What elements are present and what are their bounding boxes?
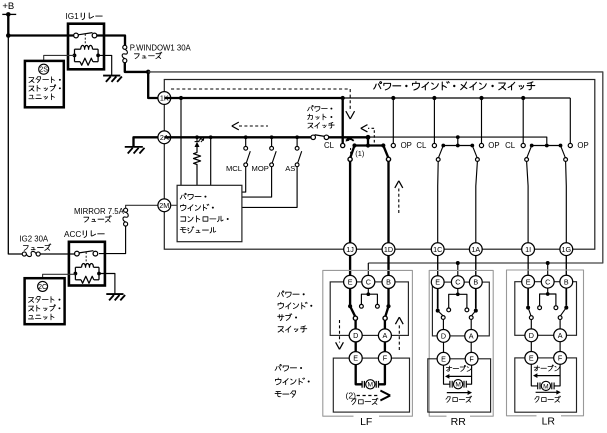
- switch RR sub blade B: [472, 311, 476, 316]
- svg-text:E: E: [526, 277, 531, 286]
- connector 2C: [38, 281, 48, 291]
- wire module feed from 2A bus: [209, 135, 213, 185]
- label RR open: [446, 365, 471, 371]
- unit 2C start-stop box: [25, 278, 65, 324]
- wire pole to 1I: [527, 161, 529, 275]
- wire LF rocker bar (thick): [355, 137, 384, 145]
- junction LR E pivot: [526, 306, 530, 310]
- wire 1A to RR B: [475, 256, 477, 276]
- svg-text:B: B: [564, 277, 569, 286]
- wire OP1 feed: [392, 98, 394, 143]
- svg-text:(1): (1): [355, 149, 364, 158]
- svg-text:RR: RR: [451, 416, 467, 428]
- svg-text:1C: 1C: [433, 245, 442, 254]
- contact LR sub pole B: [558, 316, 562, 320]
- block RR motor box: [428, 359, 491, 412]
- wire IG1 coil to ground: [98, 55, 112, 75]
- wire +B to IG1 relay (thick): [8, 34, 74, 36]
- wire IG1 coil to 2S unit: [44, 55, 75, 61]
- contact OP1: [391, 143, 395, 147]
- wire LF common bracket: [361, 288, 377, 304]
- switch MCL: [242, 135, 250, 192]
- svg-text:1G: 1G: [562, 245, 572, 254]
- svg-text:AS: AS: [285, 164, 295, 173]
- switch LF sub blade B (thick): [385, 306, 388, 316]
- fuse IG2 30A: [22, 251, 40, 256]
- svg-text:C: C: [366, 277, 371, 286]
- junction RR E pivot: [436, 309, 440, 313]
- wire LR rocker bar: [532, 145, 561, 147]
- switch LR close blade: [527, 146, 532, 158]
- switch LF sub blade E (thick): [350, 306, 355, 316]
- block LR door box: [507, 270, 584, 416]
- svg-text:IG1: IG1: [66, 12, 80, 21]
- junction OP1 feed: [391, 96, 395, 100]
- ground ACC relay: [106, 294, 125, 300]
- relay IG1 label: [66, 12, 103, 21]
- connector LR C: [541, 275, 554, 288]
- block LF door box: [323, 270, 413, 416]
- switch LF close blade (thick): [350, 146, 354, 158]
- wire ACC coil to 2C unit: [43, 274, 76, 278]
- label LF (2): [346, 391, 357, 401]
- junction LED branch: [179, 96, 183, 100]
- junction CL3 feed: [521, 96, 525, 100]
- wire RR motor loop: [444, 365, 472, 384]
- wire +B vertical feed (thick): [7, 14, 9, 35]
- unit 2S start-stop box: [25, 61, 64, 107]
- connector LF B: [382, 275, 395, 288]
- label RR close: [446, 396, 472, 402]
- wire 2A bus (thick): [164, 136, 311, 138]
- svg-text:1A: 1A: [471, 245, 480, 254]
- connector 1D: [382, 243, 395, 256]
- connector LR motor E: [525, 352, 538, 365]
- svg-text:CL: CL: [416, 141, 427, 150]
- label RR: [451, 416, 467, 428]
- relay IG1 contacts and coil: [73, 33, 100, 66]
- svg-text:E: E: [435, 278, 440, 287]
- connector RR C: [451, 276, 464, 289]
- label LR close: [535, 396, 561, 402]
- svg-text:F: F: [469, 354, 474, 363]
- switch RR close blade: [439, 146, 444, 158]
- wire RR pole to D: [442, 319, 444, 329]
- svg-text:OP: OP: [488, 141, 499, 150]
- annotation LR open arrow: [533, 373, 560, 378]
- svg-text:A: A: [469, 331, 474, 340]
- junction RR bar dots: [441, 144, 474, 148]
- contact LF open pole: [386, 157, 390, 161]
- wire 1I to LR E: [527, 256, 529, 276]
- wire LF pole to D (thick): [354, 320, 356, 329]
- contact CL3: [521, 143, 525, 147]
- label AS: [285, 164, 295, 173]
- annotation dashed flow arrow left (module): [232, 122, 268, 130]
- block power window control module box: [177, 185, 242, 241]
- svg-text:2C: 2C: [38, 284, 47, 291]
- label MCL: [226, 164, 242, 173]
- wire LF E to pivot (thick): [349, 288, 351, 306]
- connector LR E: [522, 275, 535, 288]
- junction OP2 feed: [479, 96, 483, 100]
- svg-text:1D: 1D: [384, 245, 393, 254]
- svg-text:F: F: [383, 354, 388, 363]
- label IG2 30A: [20, 235, 51, 251]
- wire RR E to pivot: [437, 289, 439, 309]
- svg-text:2S: 2S: [39, 67, 48, 74]
- label OP2: [488, 141, 499, 150]
- wire 1K bus thin section: [343, 97, 571, 99]
- led indicator: [195, 135, 205, 147]
- svg-text:P.WINDOW1 30A: P.WINDOW1 30A: [130, 44, 192, 53]
- wire LR B to pivot: [565, 288, 567, 306]
- connector RR B: [469, 276, 482, 289]
- label MOP: [252, 164, 269, 173]
- connector RR motor F: [465, 352, 478, 365]
- wire riser RR common: [457, 263, 459, 276]
- switch LR open blade: [561, 146, 566, 158]
- wire module feed from 1K bus: [180, 98, 182, 185]
- label 2S start-stop text: [29, 77, 61, 100]
- wire LF B to pivot (thick): [387, 288, 389, 306]
- svg-text:E: E: [348, 277, 353, 286]
- label OP1: [401, 141, 412, 150]
- contact RR close pole: [436, 158, 440, 162]
- wire RR B to pivot: [475, 289, 477, 309]
- junction LR common feed: [546, 261, 550, 265]
- contact LR bracket left: [538, 306, 542, 310]
- motor LR: [538, 381, 554, 390]
- wire RR A to motor F: [470, 342, 472, 352]
- block RR door box: [429, 270, 493, 416]
- junction RR B pivot: [474, 309, 478, 313]
- contact LR open pole: [564, 158, 568, 162]
- wire LF motor loop (thick): [356, 365, 385, 385]
- wire pole to 1C: [437, 161, 440, 275]
- wire mirror fuse to ACC relay: [99, 226, 126, 254]
- svg-text:C: C: [545, 277, 550, 286]
- connector 1J: [344, 243, 357, 256]
- label OP3: [577, 141, 588, 150]
- connector 1K: [158, 92, 171, 105]
- fuse P.WINDOW1 30A: [122, 45, 127, 62]
- connector LF motor F: [378, 352, 391, 365]
- block LF sub switch box: [330, 282, 408, 336]
- svg-text:OP: OP: [401, 141, 412, 150]
- label LF: [360, 416, 372, 428]
- motor RR: [450, 380, 466, 389]
- wire LR common bracket: [540, 288, 556, 306]
- connector 2A: [158, 131, 171, 144]
- block LR motor box: [515, 358, 577, 412]
- contact LF bracket left: [360, 304, 364, 308]
- svg-text:B: B: [473, 278, 478, 287]
- svg-text:MOP: MOP: [252, 164, 269, 173]
- contact LF close pole: [348, 157, 352, 161]
- connector LR B: [560, 275, 573, 288]
- annotation RR open arrow: [445, 374, 472, 379]
- label power cut switch: [308, 105, 335, 128]
- svg-text:D: D: [441, 331, 446, 340]
- wire LF pole to A (thick): [384, 320, 386, 329]
- fuse MIRROR 7.5A: [123, 208, 128, 226]
- svg-text:OP: OP: [577, 141, 588, 150]
- connector LF C: [362, 275, 375, 288]
- contact LF bracket right: [376, 304, 380, 308]
- wire ACC coil to ground: [99, 274, 115, 294]
- resistor indicator series: [194, 147, 201, 185]
- label LF close: [351, 398, 378, 405]
- wire LR E to pivot: [527, 288, 529, 306]
- wire 2A bus after power cut switch (thick): [329, 136, 368, 138]
- wire OP2 feed: [481, 98, 483, 143]
- contact LF sub pole B: [383, 316, 387, 320]
- switch LR sub blade B: [560, 308, 566, 316]
- contact LR bracket right: [554, 306, 558, 310]
- ground 2A: [125, 147, 145, 154]
- annotation LF up arrow: [395, 317, 403, 350]
- label CL1: [324, 141, 335, 150]
- junction CL2 feed: [432, 96, 436, 100]
- connector LF A: [378, 329, 391, 342]
- connector RR E: [431, 276, 444, 289]
- contact RR sub pole E: [441, 316, 445, 320]
- wire 2M to mirror fuse: [126, 205, 159, 208]
- connector 1A: [469, 243, 482, 256]
- wire IG1 contact to fuse (thick): [97, 36, 125, 46]
- wire 1G to LR B: [565, 256, 567, 276]
- wire CL1 feed (thick): [342, 98, 344, 143]
- svg-text:CL: CL: [505, 141, 516, 150]
- wire CL3 feed: [522, 98, 524, 143]
- svg-text:M: M: [455, 382, 461, 389]
- label control module text: [180, 193, 229, 233]
- svg-text:E: E: [441, 354, 446, 363]
- contact RR bracket left: [447, 308, 451, 312]
- connector 1C: [431, 243, 444, 256]
- wire RR common bracket: [449, 289, 467, 309]
- label MIRROR 7.5A: [74, 207, 125, 222]
- svg-text:M: M: [543, 383, 549, 390]
- wire +B down to IG2 fuse: [8, 36, 22, 255]
- wire pole to 1J (thick): [349, 161, 351, 275]
- wire riser LR common: [547, 263, 549, 275]
- relay ACC box: [69, 242, 105, 286]
- wire RR D to motor E: [443, 342, 445, 352]
- svg-text:E: E: [353, 354, 358, 363]
- annotation dashed flow near OP1: [361, 125, 375, 143]
- wire LR A to motor F: [559, 342, 561, 352]
- svg-text:E: E: [529, 353, 534, 362]
- switch LF open blade (thick): [383, 146, 388, 158]
- connector 1G: [560, 243, 573, 256]
- connector LF motor E: [349, 352, 362, 365]
- contact CL1: [341, 143, 345, 147]
- label P.WINDOW1 30A: [130, 44, 192, 59]
- annotation dashed flow from 1K: [171, 89, 355, 119]
- annotation LF down arrow: [336, 320, 344, 349]
- switch RR open blade: [472, 146, 477, 158]
- junction RR switch common: [456, 135, 460, 139]
- wire LR pole to A: [559, 320, 561, 330]
- svg-text:F: F: [558, 353, 563, 362]
- wire battery bus to sub-switch commons: [148, 72, 603, 263]
- svg-text:D: D: [353, 331, 358, 340]
- block RR sub switch box: [432, 282, 489, 336]
- wire LR motor loop: [531, 364, 560, 386]
- wire pole to 1G: [565, 161, 568, 275]
- contact LR close pole: [525, 158, 529, 162]
- wire OP3 feed: [569, 98, 571, 143]
- wire common bus to RR LR switches: [368, 137, 547, 144]
- block LF motor box: [333, 358, 409, 412]
- wire pole to 1D (thick): [387, 161, 389, 275]
- wire 1C to RR E: [437, 256, 439, 276]
- svg-text:B: B: [386, 277, 391, 286]
- switch MOP: [242, 135, 276, 197]
- connector RR motor E: [437, 352, 450, 365]
- annotation dashed flow up near 1D: [395, 181, 403, 213]
- wire RR pole to A: [470, 319, 472, 329]
- wire LR pole to D: [530, 320, 532, 330]
- annotation rotate arrow (1): [346, 138, 365, 158]
- connector LF D: [349, 329, 362, 342]
- contact RR sub pole B: [469, 316, 473, 320]
- wire CL2 feed: [433, 98, 435, 143]
- label CL2: [416, 141, 427, 150]
- connector RR D: [437, 330, 450, 343]
- svg-text:C: C: [455, 278, 460, 287]
- svg-text:M: M: [368, 382, 374, 389]
- label 2C start-stop text: [28, 297, 60, 320]
- contact CL2: [432, 143, 436, 147]
- junction RR common feed: [456, 261, 460, 265]
- node +B battery terminal: [2, 1, 16, 16]
- label power window main switch title: [374, 82, 535, 90]
- label power window motor: [275, 365, 310, 398]
- label power window sub switch: [278, 291, 313, 332]
- junction LF bar dots: [352, 143, 385, 147]
- junction LF B pivot: [386, 304, 390, 308]
- wire LR D to motor E: [530, 342, 532, 352]
- label LR open: [534, 365, 559, 371]
- svg-text:+B: +B: [2, 1, 14, 12]
- wire fuse to 1K (thick): [125, 63, 159, 98]
- annotation LR close arrow: [536, 390, 561, 395]
- switch LR sub blade E: [528, 308, 531, 316]
- svg-text:2M: 2M: [159, 201, 169, 210]
- contact RR bracket right: [465, 308, 469, 312]
- wire pole to 1A: [476, 161, 478, 275]
- label LR: [542, 416, 556, 428]
- svg-text:1J: 1J: [346, 245, 354, 254]
- connector 2S: [39, 64, 49, 74]
- wire RR rocker bar: [443, 137, 472, 145]
- wire 2A ground lead (thick): [134, 137, 160, 146]
- junction LR bar dots: [530, 144, 563, 148]
- block power window main switch box: [164, 80, 595, 250]
- wire LF A to motor F (thick): [384, 342, 386, 352]
- svg-text:LR: LR: [542, 416, 556, 428]
- svg-text:LF: LF: [360, 416, 372, 428]
- connector LR D: [525, 329, 538, 342]
- motor LF: [362, 380, 378, 389]
- junction CL1 feed: [341, 96, 345, 100]
- svg-text:A: A: [383, 331, 388, 340]
- label CL3: [505, 141, 516, 150]
- svg-text:1I: 1I: [525, 245, 531, 254]
- svg-text:MIRROR 7.5A: MIRROR 7.5A: [74, 207, 125, 216]
- svg-text:CL: CL: [324, 141, 335, 150]
- connector LR A: [554, 329, 567, 342]
- svg-text:MCL: MCL: [226, 164, 242, 173]
- contact LF sub pole E: [353, 316, 357, 320]
- wire 1K bus (thick): [164, 97, 342, 99]
- connector RR A: [465, 330, 478, 343]
- wire IG2 fuse to ACC relay: [40, 253, 74, 255]
- connector 1I: [522, 243, 535, 256]
- switch power cut: [311, 135, 329, 140]
- junction fuse output: [146, 70, 151, 75]
- svg-text:IG2 30A: IG2 30A: [20, 235, 49, 244]
- svg-text:ACC: ACC: [64, 230, 81, 239]
- switch AS: [242, 135, 302, 207]
- wire LF D to motor E (thick): [355, 342, 357, 352]
- junction LF switch common: [366, 135, 371, 140]
- junction LR B pivot: [564, 306, 568, 310]
- contact OP3: [568, 143, 572, 147]
- connector LR motor F: [554, 352, 567, 365]
- junction +B branch: [6, 33, 11, 38]
- relay ACC label: [64, 230, 104, 239]
- switch RR sub blade E: [438, 311, 443, 316]
- contact LR sub pole E: [529, 316, 533, 320]
- svg-text:D: D: [529, 331, 534, 340]
- relay IG1 box: [68, 24, 104, 70]
- relay ACC contacts and coil: [74, 251, 101, 284]
- svg-text:A: A: [558, 331, 563, 340]
- block LR sub switch box: [515, 282, 577, 336]
- annotation LF close arrow: [357, 391, 391, 401]
- junction LF E pivot: [348, 304, 352, 308]
- annotation RR close arrow: [447, 390, 472, 395]
- contact OP2: [479, 143, 483, 147]
- contact RR open pole: [476, 158, 480, 162]
- connector 2M: [158, 199, 171, 212]
- connector LF E: [344, 275, 357, 288]
- ground IG1 relay: [103, 76, 122, 82]
- wire riser LF common: [367, 263, 369, 275]
- wire 2M to module: [171, 204, 177, 206]
